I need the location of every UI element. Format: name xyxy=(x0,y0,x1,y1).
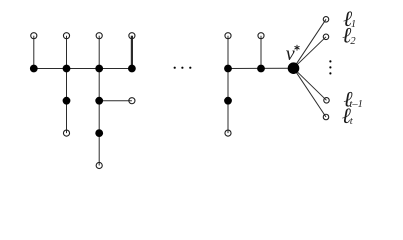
svg-text:–1: –1 xyxy=(351,99,363,110)
svg-text:2: 2 xyxy=(350,36,356,47)
svg-text:v: v xyxy=(286,43,295,65)
svg-text:1: 1 xyxy=(351,19,356,30)
svg-text:t: t xyxy=(350,116,354,127)
